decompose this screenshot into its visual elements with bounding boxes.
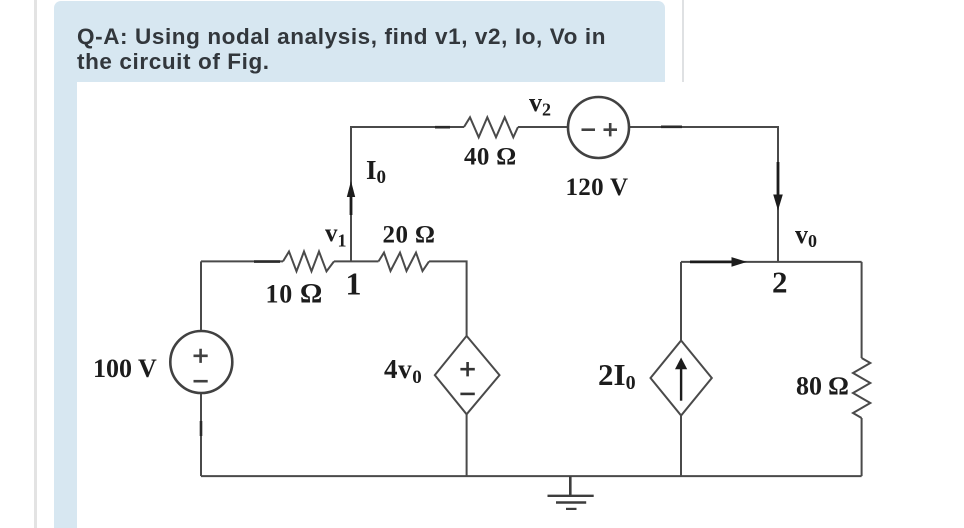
wire: left branch above 100V source: [200, 261, 202, 331]
svg-text:1: 1: [346, 266, 362, 302]
resistor 20ohm zigzag: [379, 253, 430, 271]
plus sign inside 100V: [194, 349, 208, 363]
ground symbol: [569, 476, 572, 495]
white figure area: [77, 82, 964, 528]
wire: 10ohm to node1 to 20ohm: [334, 260, 379, 262]
current arrow Vo down on right vertical wire: [777, 162, 780, 196]
left page border line: [34, 0, 37, 528]
current arrow on node2 wire (pointing right): [690, 260, 733, 263]
minus sign inside 4v0: [460, 393, 474, 396]
wire: node1 horizontal left segment: [201, 260, 283, 262]
blue question card: [54, 1, 665, 528]
right faint border line: [682, 0, 684, 86]
wire: node2 horizontal: [681, 261, 862, 263]
resistor 80ohm zigzag: [853, 358, 870, 418]
voltage source V2 120V circle: [568, 97, 629, 158]
svg-text:40 Ω: 40 Ω: [464, 144, 516, 171]
plus sign inside 4v0: [460, 362, 474, 376]
wire: 2Io branch above diamond: [680, 262, 682, 341]
question title text: [77, 24, 657, 75]
plus sign inside 120V: [604, 123, 618, 136]
wire: below 4v0 source: [466, 414, 468, 476]
wire: 40ohm to 120V source: [518, 126, 568, 128]
dependent source 2Io diamond: [651, 341, 712, 416]
resistor 10ohm zigzag: [283, 252, 334, 272]
svg-text:v0: v0: [795, 220, 817, 251]
minus sign inside 120V: [582, 128, 596, 131]
svg-text:v1: v1: [325, 220, 347, 251]
wire: 80ohm branch below resistor: [861, 418, 863, 476]
svg-text:4v0: 4v0: [384, 354, 422, 388]
svg-text:I0: I0: [366, 155, 386, 188]
minus sign inside 100V: [194, 380, 208, 383]
svg-text:20 Ω: 20 Ω: [383, 222, 435, 249]
wire: 80ohm branch above resistor: [861, 262, 863, 358]
wire: 120V source to right corner, down to node2 wire: [629, 127, 778, 262]
svg-text:2I0: 2I0: [598, 357, 636, 394]
svg-text:2: 2: [772, 265, 788, 300]
svg-text:10 Ω: 10 Ω: [266, 279, 323, 310]
wire: 2Io branch below diamond: [680, 416, 682, 477]
arrow inside 2Io diamond: [680, 368, 682, 401]
svg-text:100 V: 100 V: [93, 354, 157, 383]
wire: left branch below 100V source: [200, 393, 202, 477]
wire: node1 up-left vertical + top wire left segment: [351, 127, 464, 261]
wire: 20ohm right, corner down to 4v0 source: [429, 261, 467, 336]
voltage source 100V circle: [170, 331, 232, 393]
svg-text:120 V: 120 V: [566, 174, 629, 201]
current arrow Io on left vertical wire: [350, 196, 353, 215]
svg-text:80 Ω: 80 Ω: [796, 372, 849, 401]
dependent source 4v0 diamond: [435, 336, 500, 414]
resistor 40ohm zigzag: [464, 117, 518, 137]
darker wire overlap ticks: [201, 127, 682, 436]
svg-text:v2: v2: [529, 88, 551, 120]
wire: bottom rail: [201, 475, 862, 477]
